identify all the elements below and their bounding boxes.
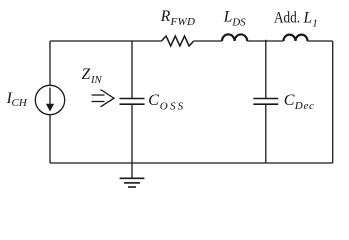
label I_CH xyxy=(6,90,28,109)
svg-text:Add.: Add. xyxy=(274,9,300,26)
label R_FWD xyxy=(160,8,195,28)
resistor R_FWD xyxy=(162,36,194,46)
ground xyxy=(120,163,145,187)
svg-text:FWD: FWD xyxy=(170,16,196,28)
svg-text:C: C xyxy=(148,92,159,109)
svg-text:DS: DS xyxy=(231,17,246,29)
inductor L_DS xyxy=(222,34,247,41)
wire top from left corner to R_FWD xyxy=(50,40,162,42)
capacitor C_OSS xyxy=(120,99,145,105)
svg-text:R: R xyxy=(160,8,171,25)
wire C_OSS branch lower xyxy=(131,105,133,163)
wire left vertical lower xyxy=(49,115,51,163)
wire C_Dec branch lower xyxy=(265,105,267,163)
wire right vertical xyxy=(332,41,334,163)
svg-text:IN: IN xyxy=(90,75,102,86)
svg-text:L: L xyxy=(223,9,233,26)
capacitor C_Dec xyxy=(253,99,278,105)
wire C_Dec branch upper xyxy=(265,40,267,98)
svg-text:L: L xyxy=(303,9,313,26)
wire left vertical upper xyxy=(49,41,51,86)
label Z_IN xyxy=(82,66,103,86)
svg-text:C: C xyxy=(284,92,295,109)
wire between R_FWD and L_DS xyxy=(194,40,222,42)
label Add. L1 xyxy=(274,9,318,29)
svg-text:1: 1 xyxy=(312,18,318,30)
label C_OSS xyxy=(148,92,185,112)
inductor Add. L1 xyxy=(284,35,308,41)
svg-text:Z: Z xyxy=(82,66,91,83)
label L_DS xyxy=(223,9,246,29)
svg-text:OSS: OSS xyxy=(160,101,186,113)
node Z_IN double arrow xyxy=(92,90,115,107)
svg-text:CH: CH xyxy=(12,97,28,109)
label C_Dec xyxy=(284,92,315,112)
wire bottom xyxy=(50,162,333,164)
wire between L_DS and node A xyxy=(247,40,283,42)
current source I_CH xyxy=(35,85,64,114)
wire C_OSS branch upper xyxy=(131,41,133,98)
wire from Add. L1 to top-right corner xyxy=(308,40,333,42)
svg-text:Dec: Dec xyxy=(294,100,315,112)
